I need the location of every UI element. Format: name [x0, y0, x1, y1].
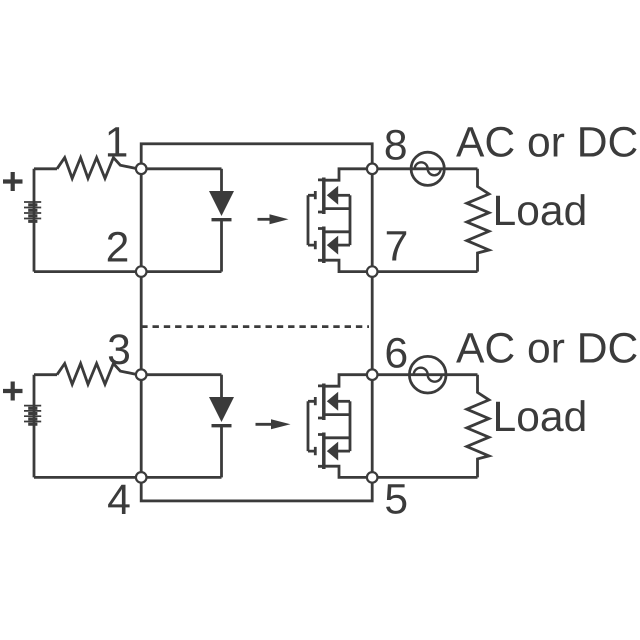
pin label 5 [386, 484, 406, 514]
pin label 3 [109, 334, 129, 364]
pin label 2 [108, 232, 127, 262]
MOSFET Q2a channel bar [322, 384, 326, 421]
optocoupler arrow ch1 [258, 214, 289, 224]
MOSFET Q2a drain wire [326, 375, 373, 387]
pin 7 node [367, 266, 378, 277]
MOSFET Q1b channel bar [322, 227, 326, 264]
resistor R2 [57, 364, 138, 385]
pin label 1 [108, 127, 126, 156]
label Load ch1 [496, 194, 585, 225]
MOSFET Q1b body arrow [327, 236, 350, 255]
wire LED box top [141, 167, 221, 170]
resistor R1 [57, 158, 138, 179]
AC source V1 [411, 152, 444, 185]
pin label 4 [108, 485, 130, 514]
pin 4 node [136, 472, 147, 483]
wire input bottom ch2 [34, 476, 141, 479]
pin label 6 [387, 338, 407, 368]
MOSFET Q1a drain wire [326, 169, 373, 180]
common source wire ch2 [349, 401, 352, 451]
MOSFET Q1b drain wire [326, 260, 373, 271]
wire LED box bottom [141, 270, 221, 273]
MOSFET Q1a channel bar [322, 178, 326, 215]
pin label 8 [386, 130, 406, 160]
MOSFET Q2a source wire [326, 413, 351, 416]
plus sign input 2 [3, 382, 23, 401]
optocoupler arrow ch2 [256, 419, 291, 429]
gate bracket G2 [308, 397, 315, 455]
wire output top ch1 [372, 167, 477, 170]
pin 1 node [136, 164, 147, 175]
MOSFET Q1b source wire [326, 230, 351, 233]
wire input bottom [34, 270, 141, 273]
MOSFET Q2b drain wire [326, 466, 373, 477]
MOSFET Q2b end ticks [318, 435, 326, 467]
pin 6 node [367, 369, 378, 380]
battery B1 [24, 202, 41, 221]
pin 8 node [367, 164, 378, 175]
pin label 7 [387, 231, 406, 260]
MOSFET Q2a body arrow [327, 392, 350, 411]
battery B2 [24, 406, 41, 425]
AC source V2 [409, 356, 446, 393]
wire output bottom ch1 [372, 270, 477, 273]
MOSFET Q1a body arrow [327, 186, 350, 205]
package outline U1 [141, 144, 372, 501]
pin 5 node [367, 472, 378, 483]
wire LED box bottom ch2 [141, 476, 221, 479]
label Load ch2 [496, 400, 585, 431]
wire input left vertical ch2 [33, 375, 36, 478]
MOSFET Q2b source wire [326, 436, 351, 439]
MOSFET Q2a end ticks [318, 386, 326, 418]
plus sign input 1 [3, 172, 23, 191]
MOSFET Q1b end ticks [318, 229, 326, 261]
MOSFET Q1a end ticks [318, 180, 326, 212]
MOSFET Q2b channel bar [322, 433, 326, 470]
wire output top ch2 [372, 373, 477, 376]
load resistor RL2 [467, 375, 489, 478]
common source wire ch1 [349, 195, 352, 245]
MOSFET Q2b body arrow [327, 442, 350, 461]
wire input left stub ch2 [34, 373, 57, 376]
channel divider dashed line [141, 325, 369, 328]
label AC or DC ch2 [456, 333, 636, 363]
label AC or DC ch1 [456, 127, 636, 157]
wire LED box top ch2 [141, 373, 221, 376]
pin 2 node [136, 266, 147, 277]
load resistor RL1 [467, 169, 489, 272]
wire input left vertical [33, 169, 36, 272]
pin 3 node [136, 369, 147, 380]
gate bracket G1 [308, 191, 315, 249]
LED D1 [209, 169, 234, 272]
wire input left stub [34, 167, 57, 170]
LED D2 [209, 375, 234, 478]
wire output bottom ch2 [372, 476, 477, 479]
MOSFET Q1a source wire [326, 207, 351, 210]
